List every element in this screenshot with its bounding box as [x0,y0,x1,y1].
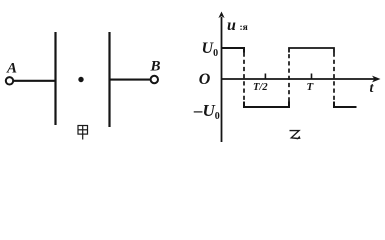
terminal A [6,77,13,84]
waveform top segment 2 (solid) [289,48,334,53]
charged particle dot [78,77,83,82]
svg-text:O: O [199,71,211,88]
wire right plate to B [110,79,151,81]
u axis (vertical) [221,17,223,142]
t axis arrowhead [372,76,381,83]
svg-text:u: u [227,17,236,34]
wire A to left plate [13,80,55,82]
u axis arrowhead [218,12,224,19]
svg-text:A: A [6,61,17,77]
capacitor right plate [108,32,110,127]
svg-text:T/2: T/2 [253,82,268,93]
svg-text:B: B [150,59,161,75]
waveform top segment 1 (solid) [222,48,245,53]
t axis (horizontal) [222,78,376,80]
dashed transition at 3T/4 [288,53,290,102]
dashed transition at T/4 [243,53,245,102]
waveform bottom segment 1 (solid) [244,102,289,108]
waveform bottom segment 2 (solid) [334,102,357,108]
dashed transition at 5T/4 [333,53,335,102]
tick T [311,74,313,80]
tick T/2 [264,74,266,80]
caption 甲 (drawn glyph) [78,126,88,140]
capacitor left plate [54,32,56,125]
svg-text::я: :я [240,23,248,33]
terminal B [151,76,158,83]
caption 乙 (drawn glyph) [290,131,301,140]
